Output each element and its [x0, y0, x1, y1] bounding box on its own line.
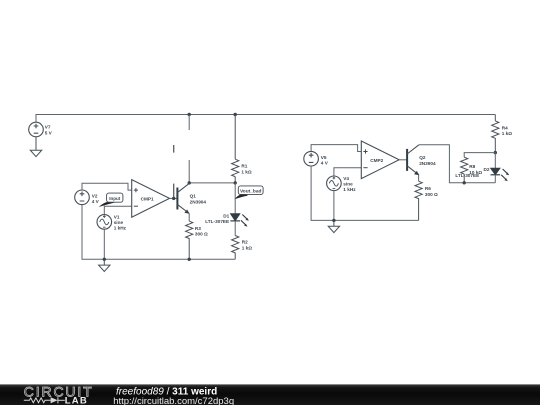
ground G1 below V7	[30, 137, 41, 157]
wire R4 node to R8 top	[464, 153, 495, 158]
label V5 value 4 V	[321, 155, 329, 165]
wire V4 to CMP2 minus input	[334, 168, 361, 176]
svg-text:D2: D2	[484, 167, 490, 172]
svg-text:2N3904: 2N3904	[419, 161, 436, 166]
svg-text:LAB: LAB	[65, 395, 88, 405]
label R3 300 Ohm	[195, 226, 208, 237]
label V4 sine 1 kHz	[343, 176, 356, 192]
svg-text:V2: V2	[92, 194, 98, 199]
transistor Q2	[407, 145, 419, 175]
svg-text:1 kΩ: 1 kΩ	[241, 169, 252, 174]
CMP1 minus input mark	[134, 205, 138, 207]
svg-text:4 V: 4 V	[92, 199, 100, 204]
svg-text:V5: V5	[321, 155, 327, 160]
wire top rail from V7 to R4	[36, 115, 495, 123]
svg-text:300 Ω: 300 Ω	[195, 232, 208, 237]
svg-text:5 V: 5 V	[45, 131, 53, 136]
op-amp CMP2	[361, 141, 399, 179]
node dot V1 ground junction	[103, 258, 106, 261]
label D1 LTL-307EE	[205, 213, 229, 224]
wire V5 to right bottom rail	[311, 166, 419, 220]
wire CMP2 output to Q2 base	[399, 159, 407, 161]
voltage source V2	[75, 190, 90, 205]
flag Vout_bad	[234, 186, 263, 200]
svg-text:CMP1: CMP1	[141, 196, 154, 201]
svg-text:sine: sine	[343, 181, 353, 186]
svg-text:Vout_bad: Vout_bad	[240, 189, 262, 195]
CircuitLab logo resistor-diode glyph	[24, 397, 65, 403]
flag Input	[99, 193, 123, 207]
wire from gap down to Q1 collector node	[188, 160, 190, 183]
label R1 1 kOhm	[241, 163, 252, 174]
ground G3 on right bottom rail	[328, 220, 339, 232]
resistor R3	[186, 221, 193, 259]
label R6 300 Ohm	[425, 186, 438, 197]
svg-text:LTL-307EE: LTL-307EE	[455, 173, 479, 178]
resistor R6	[415, 181, 422, 220]
CMP2 plus input mark	[363, 149, 367, 153]
svg-text:4 V: 4 V	[321, 160, 329, 165]
sine source V4	[327, 176, 342, 191]
svg-text:R2: R2	[242, 240, 248, 245]
svg-text:1 kΩ: 1 kΩ	[242, 245, 253, 250]
wire V4 to right bottom rail	[333, 191, 335, 221]
wire Q2 collector to LED branch bottom	[419, 145, 495, 183]
CMP1 plus input mark	[134, 188, 138, 192]
wire V2 to CMP1 plus input	[82, 183, 132, 190]
label V2 value 4 V	[92, 194, 100, 204]
svg-text:Q1: Q1	[190, 194, 197, 199]
wire stub from rail toward Q1 (broken)	[188, 115, 190, 131]
transistor Q1	[177, 183, 189, 213]
wire V2 to bottom rail and rail to R2	[82, 205, 235, 260]
LED D2	[491, 153, 501, 183]
resistor R1	[232, 115, 239, 183]
svg-text:R3: R3	[195, 226, 201, 231]
voltage source V5	[304, 151, 319, 166]
node dot on rail at R1 branch	[234, 113, 237, 116]
svg-text:sine: sine	[114, 220, 124, 225]
svg-text:V1: V1	[114, 214, 120, 219]
node dot on rail at Q1 branch	[188, 113, 191, 116]
node dot Q1 collector	[188, 181, 191, 184]
svg-text:http://circuitlab.com/c72dp3q: http://circuitlab.com/c72dp3q	[113, 396, 234, 405]
svg-text:1 kHz: 1 kHz	[343, 187, 356, 192]
label Q2 2N3904	[419, 155, 436, 166]
footer bar	[0, 384, 540, 405]
voltage source V7	[29, 122, 44, 137]
svg-text:300 Ω: 300 Ω	[425, 192, 438, 197]
label V7 value 5 V	[45, 125, 53, 136]
sine source V1	[97, 215, 112, 230]
wire V1 to CMP1 minus input	[104, 206, 131, 214]
sine glyph inside V1	[100, 215, 109, 227]
svg-text:Q2: Q2	[419, 155, 426, 160]
resistor R4	[492, 115, 499, 153]
node dot Vout junction	[234, 181, 237, 184]
svg-text:2N3904: 2N3904	[190, 199, 207, 204]
svg-text:R6: R6	[425, 186, 431, 191]
label Q1 2N3904	[190, 194, 207, 205]
svg-text:R4: R4	[502, 125, 508, 130]
node dot R8 bottom junction	[463, 181, 466, 184]
wire Q2 emitter to R6	[418, 175, 420, 181]
wire CMP1 output to Q1 base	[170, 197, 178, 199]
sine glyph inside V4	[329, 177, 338, 189]
ground G2 on bottom rail	[99, 259, 110, 271]
svg-text:1 kHz: 1 kHz	[114, 225, 127, 230]
node dot R3 ground junction	[188, 258, 191, 261]
wire stub above output node	[173, 184, 175, 199]
wire fragment dash	[173, 145, 175, 153]
svg-text:CMP2: CMP2	[370, 158, 383, 163]
label D2 LTL-307EE	[455, 167, 489, 178]
label R8 10 kOhm	[469, 164, 482, 175]
node dot R4 bottom junction	[494, 151, 497, 154]
label R4 1 kOhm	[502, 125, 513, 136]
wire Q1 emitter to R3	[188, 214, 190, 222]
svg-text:R8: R8	[469, 164, 475, 169]
wire V5 to CMP2 plus input	[311, 145, 361, 152]
svg-text:Input: Input	[109, 196, 120, 201]
CMP2 minus input mark	[363, 167, 367, 169]
LED D1 emission arrows	[241, 215, 249, 227]
svg-text:V7: V7	[45, 125, 51, 130]
svg-text:R1: R1	[241, 163, 247, 168]
wire Q1 collector node to Vout node	[189, 182, 235, 184]
resistor R2	[232, 236, 239, 260]
node dot on CMP1 output	[172, 197, 175, 200]
svg-text:D1: D1	[223, 213, 229, 218]
resistor R8	[461, 157, 468, 183]
LED D1	[230, 183, 240, 236]
svg-text:V4: V4	[343, 176, 349, 181]
label V1 sine 1 kHz	[114, 214, 127, 230]
wire V1 to bottom rail	[103, 229, 105, 259]
node dot V4 ground junction	[332, 219, 335, 222]
label R2 1 kOhm	[242, 240, 253, 251]
LED D2 emission arrows	[501, 169, 509, 181]
svg-text:LTL-307EE: LTL-307EE	[205, 219, 229, 224]
op-amp CMP1	[132, 180, 170, 218]
svg-text:1 kΩ: 1 kΩ	[502, 131, 513, 136]
